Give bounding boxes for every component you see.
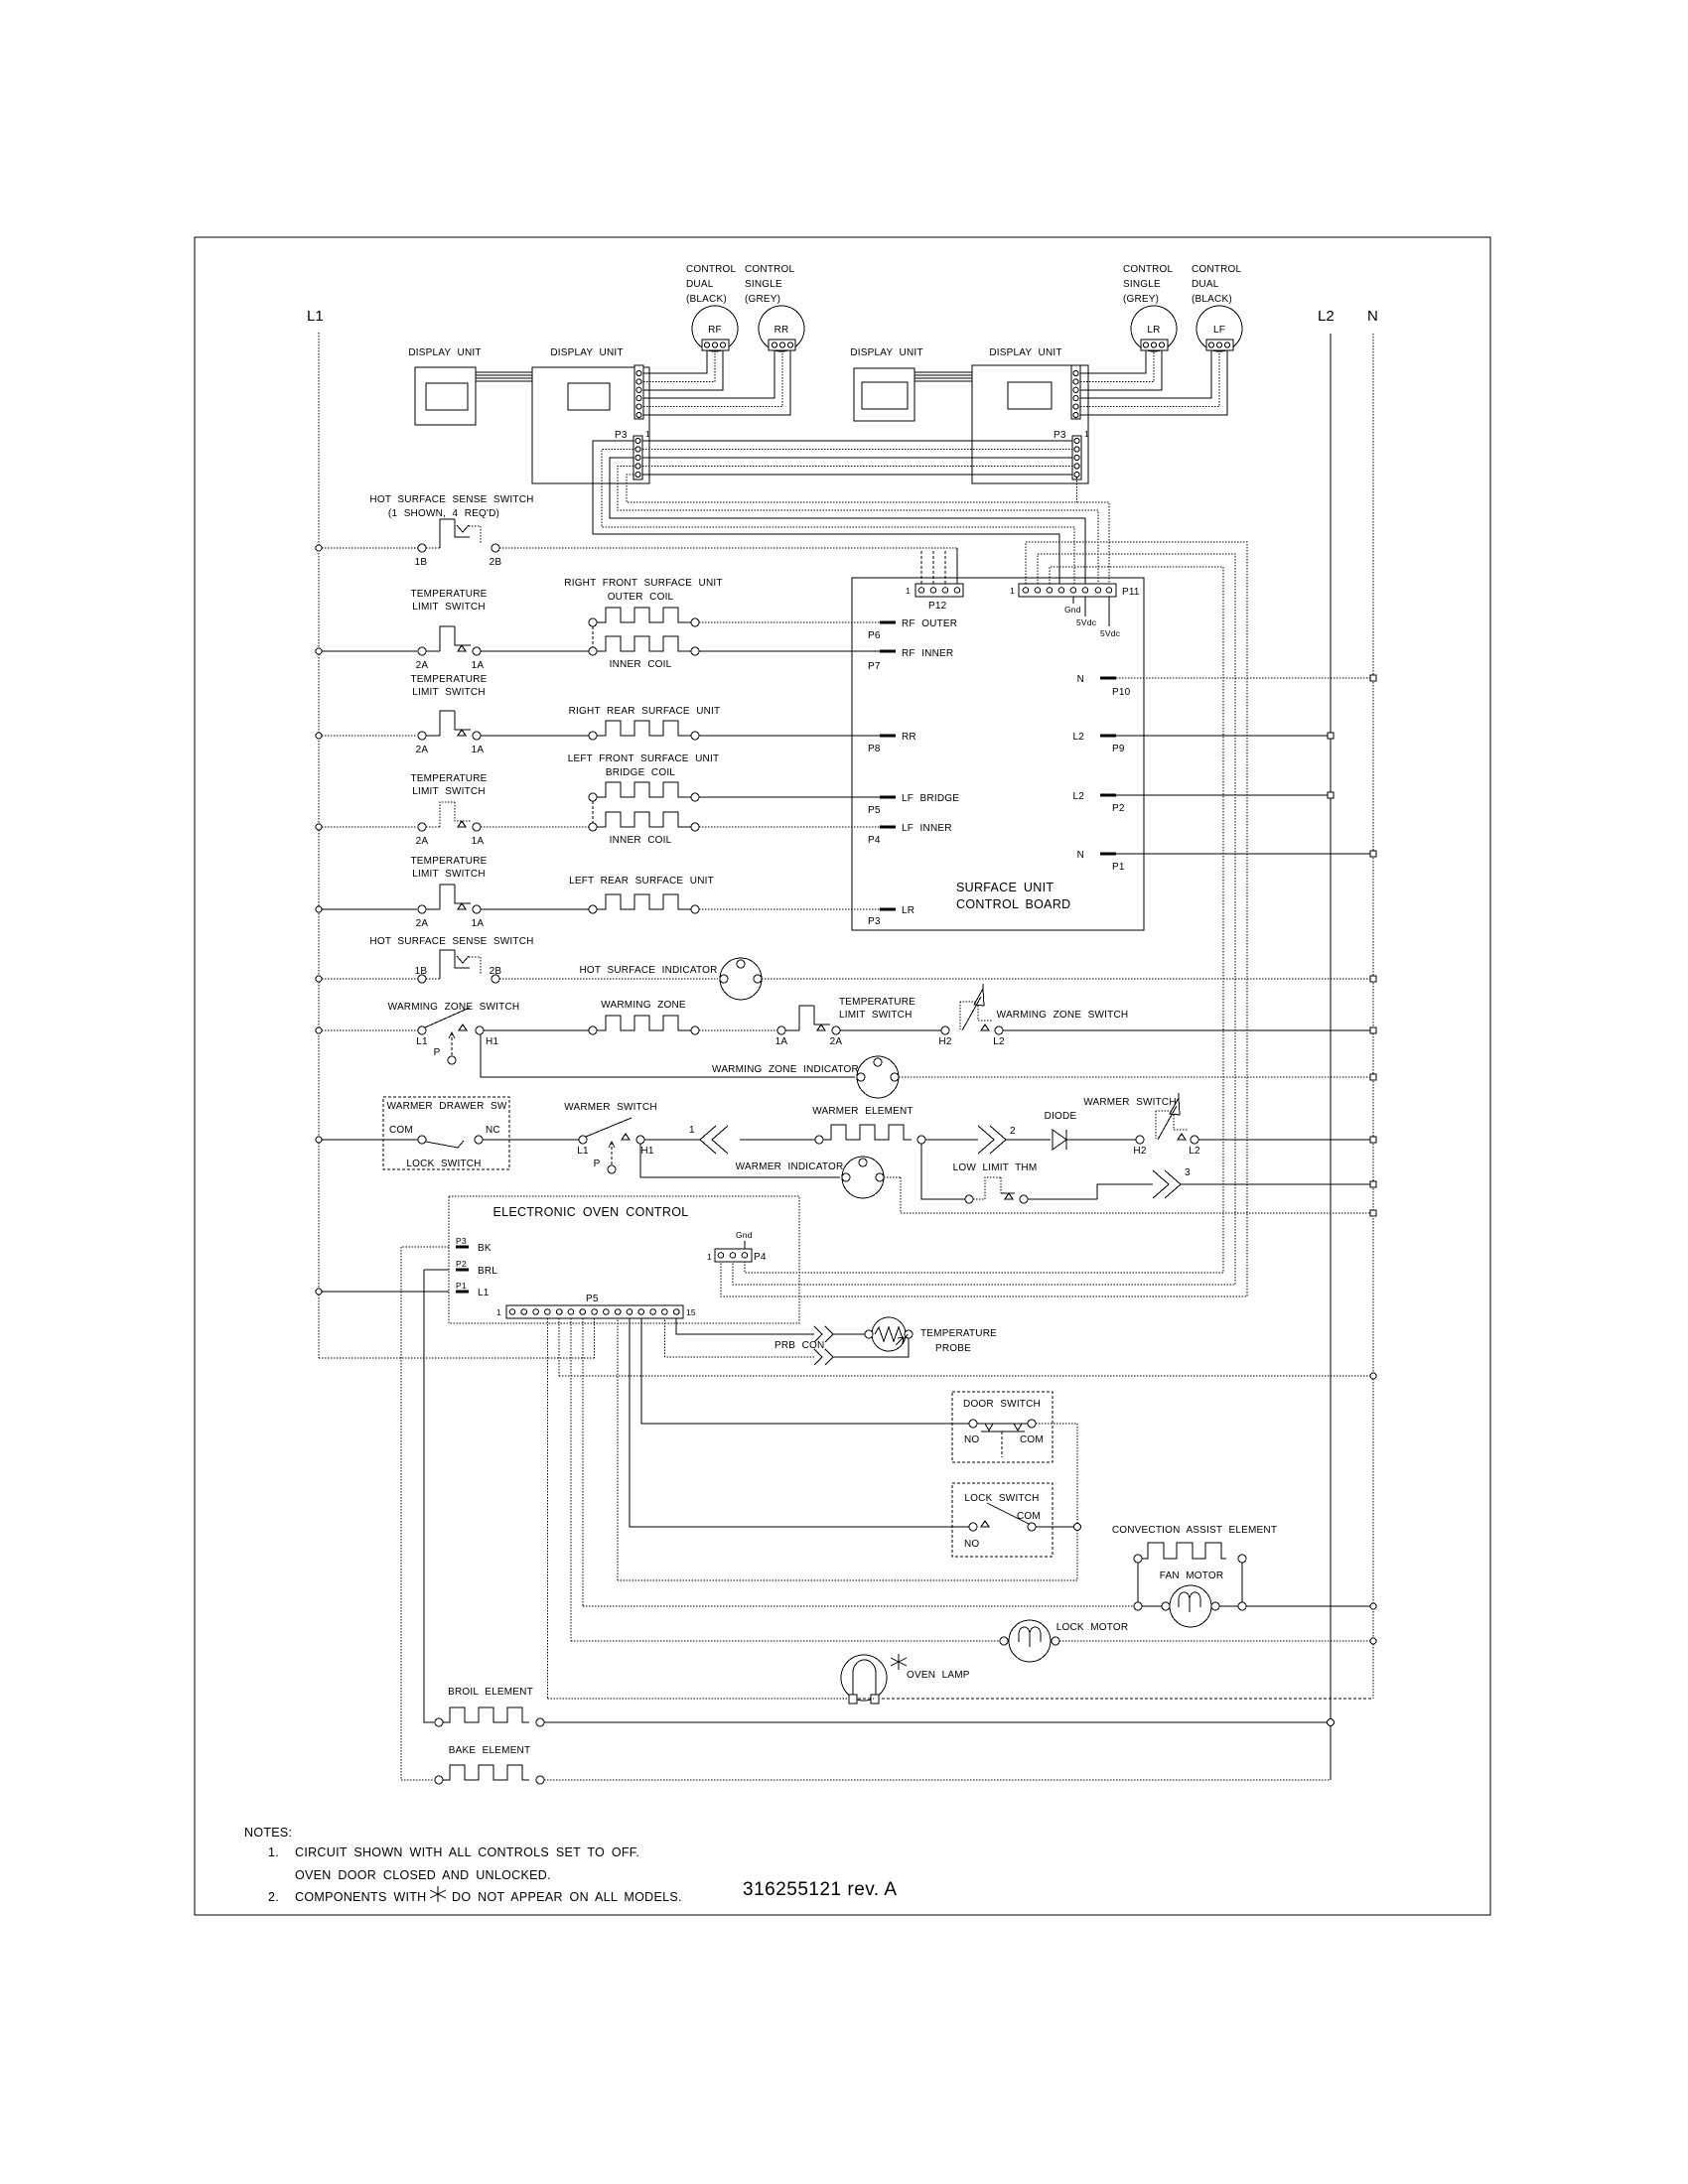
wire broil element to L2 [544,1721,1331,1723]
display unit 4 box [972,365,1088,483]
svg-text:OVEN LAMP: OVEN LAMP [907,1670,970,1681]
svg-text:LIMIT SWITCH: LIMIT SWITCH [412,869,486,880]
svg-text:1: 1 [1010,586,1015,596]
svg-text:2A: 2A [416,918,429,929]
wire probe return to P5 pin14 [664,1318,814,1357]
svg-text:N: N [1077,850,1084,861]
svg-text:2A: 2A [416,836,429,847]
warmer switch right [1136,1136,1144,1144]
svg-text:H2: H2 [938,1036,951,1047]
wire P3a pin2 wrap to P11 pin5 [602,450,1074,585]
svg-text:P9: P9 [1112,744,1125,754]
wire coil LF bridge to P5 [699,796,880,798]
ribbon cable 2 [914,372,972,381]
heating element broil [435,1718,443,1726]
wire P11 pin3 riser to right bundle [745,567,1223,1273]
svg-text:P3: P3 [456,1236,467,1246]
node junction P10-N [1370,675,1376,681]
oven lamp asterisk [891,1654,907,1670]
svg-text:WARMER SWITCH: WARMER SWITCH [564,1102,657,1113]
fan motor [1142,1605,1162,1607]
svg-text:INNER COIL: INNER COIL [610,659,672,670]
svg-text:SINGLE: SINGLE [1123,279,1161,290]
pin P4 [880,826,896,829]
svg-text:INNER COIL: INNER COIL [610,835,672,846]
svg-text:CONTROL: CONTROL [1192,264,1242,275]
svg-text:WARMING ZONE SWITCH: WARMING ZONE SWITCH [997,1010,1129,1021]
wire 1A to coil RF [481,650,589,652]
node junction pin5-N [1370,1373,1376,1379]
wire warmer indicator return to N [884,1177,1373,1213]
wire P5 pin12 to door switch [641,1318,969,1424]
control knob RF [692,306,738,351]
node junction warming-N [1370,1027,1376,1033]
node L1 junction row LR [316,906,322,912]
svg-text:WARMER ELEMENT: WARMER ELEMENT [812,1106,914,1117]
warming zone indicator lamp [857,1056,899,1098]
node L1 junction row warmer [316,1137,322,1143]
svg-text:LIMIT SWITCH: LIMIT SWITCH [412,602,486,613]
svg-text:LEFT FRONT SURFACE UNIT: LEFT FRONT SURFACE UNIT [568,753,720,764]
node L1 junction row LF [316,824,322,830]
wire row RF inner rail [322,650,417,652]
wire P3 EOC left [401,1246,449,1248]
svg-text:Gnd: Gnd [1064,605,1081,614]
svg-text:CIRCUIT SHOWN WITH ALL CONTROL: CIRCUIT SHOWN WITH ALL CONTROLS SET TO O… [295,1845,639,1859]
wire chevron to probe [833,1333,865,1335]
svg-text:TEMPERATURE: TEMPERATURE [410,856,487,867]
svg-text:2A: 2A [416,660,429,671]
svg-text:LEFT REAR SURFACE UNIT: LEFT REAR SURFACE UNIT [569,876,714,887]
heating element RF outer coil [597,608,691,622]
svg-text:TEMPERATURE: TEMPERATURE [410,773,487,784]
ribbon cable 1 [476,372,532,381]
svg-text:COM: COM [1020,1434,1044,1445]
svg-text:P5: P5 [868,805,881,816]
wire display2 pin6 to RR pin3 [643,350,790,415]
svg-text:3: 3 [1185,1167,1191,1178]
svg-text:TEMPERATURE: TEMPERATURE [410,589,487,600]
wire P5 pin5 to N [559,1318,1373,1376]
svg-text:P5: P5 [586,1294,599,1304]
wire P2 to L2 [1116,794,1331,796]
svg-text:LOW LIMIT THM: LOW LIMIT THM [953,1162,1038,1173]
wire display4 pin2 to LR pin2 [1080,350,1154,381]
lock motor [1009,1620,1051,1662]
wire hot surface indicator to N [762,978,1373,980]
display unit 3 box [854,368,914,421]
connector P4 EOC [715,1249,752,1262]
node junction fan-N [1370,1603,1376,1609]
wire convection drops [1138,1563,1242,1602]
svg-text:DOOR SWITCH: DOOR SWITCH [963,1399,1041,1410]
notes asterisk [430,1886,446,1902]
pin P8 [880,735,896,738]
warmer switch left [579,1136,587,1144]
wire quick connect 3 to N [1181,1183,1373,1185]
wire L1 bus [318,333,320,1358]
node junction warmer-N [1370,1137,1376,1143]
svg-text:WARMER INDICATOR: WARMER INDICATOR [736,1161,844,1172]
svg-text:LOCK SWITCH: LOCK SWITCH [964,1493,1039,1504]
wire P3b pin5 drop to bus [1076,478,1078,502]
wire to diode [1006,1139,1051,1141]
page border frame [195,237,1490,1915]
wire P1 EOC to L1 [319,1291,449,1293]
svg-text:P1: P1 [456,1281,467,1291]
svg-text:P11: P11 [1122,587,1140,598]
svg-text:LF BRIDGE: LF BRIDGE [902,793,959,804]
svg-text:CONTROL: CONTROL [1123,264,1174,275]
pin 5Vdc stub P11 [1084,597,1086,616]
wire P5 pin7 to fan row [583,1318,1134,1606]
svg-text:1: 1 [689,1125,695,1136]
svg-text:COM: COM [389,1125,413,1136]
wire bake element to L2 corner [544,1779,1331,1781]
wire display2 pin5 to RR pin2 [643,350,782,407]
svg-text:NC: NC [486,1125,500,1136]
heating element LF bridge coil [597,782,691,797]
svg-text:2A: 2A [416,745,429,755]
wire 1A to coil RR [481,735,589,737]
hot surface sense switch 2 [418,975,426,983]
svg-text:HOT SURFACE SENSE SWITCH: HOT SURFACE SENSE SWITCH [369,936,533,947]
svg-text:L2: L2 [1072,732,1084,743]
wire coil RR to P8 [699,735,880,737]
svg-text:NOTES:: NOTES: [244,1826,292,1840]
pin P9 [1100,735,1116,738]
svg-text:COMPONENTS WITH: COMPONENTS WITH [295,1890,427,1904]
temperature probe [872,1317,906,1351]
node junction door-lock COM [1074,1524,1081,1531]
svg-text:L2: L2 [1072,791,1084,802]
wire P10 to N [1116,677,1373,679]
svg-text:P4: P4 [754,1252,767,1263]
svg-text:P2: P2 [1112,803,1125,814]
wire P2 EOC left [424,1269,449,1271]
wire row RR rail [322,735,417,737]
heating element warmer [815,1136,823,1144]
svg-text:H1: H1 [486,1036,498,1047]
svg-text:2.: 2. [268,1890,279,1904]
svg-text:2: 2 [1010,1126,1016,1137]
control knob LR [1131,306,1177,351]
svg-text:P4: P4 [868,835,881,846]
node junction hotsurfind-N [1370,976,1376,982]
pin P10 [1100,677,1116,680]
warmer indicator lamp [842,1157,884,1198]
wire low limit branch [921,1144,965,1199]
connector P12 [915,584,963,597]
node junction warmind-N [1370,1074,1376,1080]
heating element RF inner coil [597,636,691,651]
wire row LF rail [322,826,417,828]
wire P9 to L2 [1116,735,1331,737]
wire to warmer element [740,1139,815,1141]
svg-text:H1: H1 [640,1146,653,1157]
surface unit control board box [852,578,1144,930]
svg-text:LR: LR [902,905,914,916]
svg-text:TEMPERATURE: TEMPERATURE [920,1328,997,1339]
wire coil LF inner to P4 [699,826,880,828]
svg-text:P3: P3 [868,916,881,927]
wire junction down to P5 pin10 [618,1318,1077,1580]
node L1 junction row hot surface 2 [316,976,322,982]
wire P3a pin4 to P3b pin4 [642,466,1072,468]
wire hot surface 1 to P12 [499,547,957,549]
svg-text:1.: 1. [268,1845,279,1859]
svg-text:LIMIT SWITCH: LIMIT SWITCH [412,687,486,698]
node junction P1-N [1370,851,1376,857]
svg-text:P12: P12 [928,601,947,612]
svg-text:LF INNER: LF INNER [902,823,952,834]
warming zone switch left [418,1026,426,1034]
node junction P2-L2 [1328,792,1334,798]
wire P3a pin5 wrap to P11 pin8 [627,475,1109,584]
node junction lowlimit-N [1370,1181,1376,1187]
wire coil LR to P3 [699,908,880,910]
temperature limit switch warming [777,1026,785,1034]
connector P3 display2 [633,436,642,479]
wire P5 pin11 to lock switch [630,1318,969,1527]
connector P11 [1019,584,1116,597]
wire probe return [833,1338,909,1357]
quick connect probe bottom [814,1349,833,1365]
wire warmer indicator branch [640,1144,840,1177]
wire warmer row to N [1198,1139,1373,1141]
wire P5 pin6 to lock motor [571,1318,1000,1641]
svg-text:RF INNER: RF INNER [902,648,953,659]
svg-text:CONTROL: CONTROL [745,264,795,275]
wire P3a pin1 wrap to P11 pin4 [593,441,1059,584]
wire P11 pin1 riser to right bundle [721,542,1247,1297]
svg-text:2B: 2B [490,557,502,568]
wire P5 pin15 to probe [676,1318,814,1334]
heating element LF inner coil [597,812,691,827]
svg-text:SURFACE UNIT: SURFACE UNIT [956,881,1054,894]
wire 1A to coil LR [481,908,589,910]
svg-text:WARMING ZONE: WARMING ZONE [601,1000,686,1011]
svg-text:BRIDGE COIL: BRIDGE COIL [606,767,675,778]
wire P3a pin3 to P3b pin3 [642,457,1072,459]
svg-text:WARMER SWITCH: WARMER SWITCH [1083,1097,1177,1108]
svg-text:2B: 2B [490,966,502,977]
svg-text:DIODE: DIODE [1045,1111,1077,1122]
wire display4 pin5 to LF pin2 [1080,350,1219,407]
warming zone switch right [941,1026,949,1034]
svg-text:TEMPERATURE: TEMPERATURE [839,997,915,1008]
svg-text:WARMING ZONE INDICATOR: WARMING ZONE INDICATOR [712,1064,859,1075]
svg-text:DISPLAY UNIT: DISPLAY UNIT [989,347,1061,358]
wire row hot surface 1 rail left [322,547,418,549]
node branch LF bridge [589,793,597,801]
wire row warmer rail left [322,1139,418,1141]
svg-text:RR: RR [902,732,916,743]
svg-text:H2: H2 [1133,1146,1146,1157]
wire lock COM to junction [1036,1526,1074,1528]
temperature limit switch LF [418,823,426,831]
wire P3a pin2 to P3b pin2 [642,449,1072,451]
svg-text:P3: P3 [615,430,628,441]
svg-text:LOCK MOTOR: LOCK MOTOR [1056,1622,1129,1633]
svg-text:PRB CON: PRB CON [774,1340,824,1351]
wire H1 to warming coil [484,1029,589,1031]
wire display4 pin4 to LF pin1 [1080,350,1211,398]
pin P7 [880,650,896,653]
display unit 2 edge connector [634,365,643,419]
temperature limit switch RR [418,732,426,740]
display unit 2 box [532,367,649,483]
svg-text:(1 SHOWN, 4 REQ'D): (1 SHOWN, 4 REQ'D) [388,508,499,519]
svg-text:LIMIT SWITCH: LIMIT SWITCH [412,786,486,797]
temperature limit switch LR [418,905,426,913]
svg-text:CONTROL BOARD: CONTROL BOARD [956,897,1070,911]
svg-text:P: P [434,1047,441,1058]
node junction warmind2-N [1370,1210,1376,1216]
svg-text:PROBE: PROBE [935,1343,971,1354]
wire H1 to quick connect 1 [644,1139,700,1141]
heating element warming zone [589,1026,597,1034]
svg-text:N: N [1077,674,1084,685]
wire P3a pin5 to P3b pin5 [642,474,1072,476]
pin P5 [880,796,896,799]
node L1 junction row RR [316,733,322,739]
svg-text:BRL: BRL [478,1266,497,1277]
svg-text:1A: 1A [472,660,485,671]
lock switch box [952,1483,1053,1557]
svg-text:316255121 rev. A: 316255121 rev. A [743,1879,898,1900]
svg-text:NO: NO [964,1539,979,1550]
svg-text:L1: L1 [478,1288,490,1298]
svg-text:(BLACK): (BLACK) [1192,294,1232,305]
wire coil RF inner to P7 [699,650,880,652]
svg-text:WARMER DRAWER SW: WARMER DRAWER SW [386,1101,506,1112]
wire row LR rail [322,908,417,910]
svg-text:1B: 1B [415,966,428,977]
svg-text:ELECTRONIC OVEN CONTROL: ELECTRONIC OVEN CONTROL [493,1205,689,1219]
svg-text:HOT SURFACE SENSE SWITCH: HOT SURFACE SENSE SWITCH [369,494,533,505]
control knob LF [1196,306,1242,351]
svg-text:N: N [1367,308,1378,325]
node L1 junction P1 [316,1289,322,1295]
lock switch contacts [969,1523,977,1531]
connector P5 EOC [506,1305,683,1318]
wire coil RF outer to P6 [699,621,880,623]
quick connect probe top [814,1326,833,1342]
svg-text:BK: BK [478,1243,492,1254]
oven lamp [841,1655,887,1701]
svg-text:WARMING ZONE SWITCH: WARMING ZONE SWITCH [388,1002,520,1013]
wire door COM down [1036,1424,1077,1523]
svg-text:(BLACK): (BLACK) [686,294,727,305]
svg-text:CONTROL: CONTROL [686,264,737,275]
svg-text:L1: L1 [307,308,324,325]
svg-text:DISPLAY UNIT: DISPLAY UNIT [850,347,922,358]
wire low limit to quick connect 3 [1028,1184,1153,1199]
svg-text:BAKE ELEMENT: BAKE ELEMENT [449,1745,531,1756]
wire display4 pin6 to LF pin3 [1080,350,1227,415]
display unit 1 box [415,367,476,425]
hot surface sense switch 1 [418,544,426,552]
pin P3 board [880,908,896,911]
pin P2 board [1100,794,1116,797]
svg-text:LOCK SWITCH: LOCK SWITCH [406,1159,481,1169]
node L1 junction row warming [316,1027,322,1033]
node conv left on fan row [1134,1602,1142,1610]
svg-text:NO: NO [964,1434,979,1445]
svg-text:1A: 1A [472,918,485,929]
heating element convection assist [1134,1555,1142,1563]
svg-text:L2: L2 [1318,308,1335,325]
node L1 junction row RF [316,648,322,654]
electronic oven control box [449,1196,799,1323]
svg-text:1A: 1A [472,836,485,847]
node conv right on fan row [1238,1602,1246,1610]
svg-text:1B: 1B [415,557,428,568]
wire L2 bus [1330,334,1332,1780]
connector P3 display4 [1072,436,1081,479]
wire 1A to coil LF [481,826,589,828]
wire warming indicator to N [899,1076,1373,1078]
svg-text:HOT SURFACE INDICATOR: HOT SURFACE INDICATOR [580,965,718,976]
svg-text:LIMIT SWITCH: LIMIT SWITCH [839,1010,913,1021]
warmer drawer switch box [383,1097,509,1169]
wire P3a pin1 to P3b pin1 [642,440,1072,442]
pin P1 board [1100,853,1116,856]
svg-text:1: 1 [1084,429,1089,439]
node junction broil-L2 [1328,1719,1335,1726]
svg-text:DISPLAY UNIT: DISPLAY UNIT [408,347,481,358]
svg-text:P6: P6 [868,630,881,641]
wire P3a pin4 wrap to P11 pin7 [618,467,1098,585]
node branch RF outer [589,618,597,626]
wire warming coil to 1A [699,1029,777,1031]
svg-text:5Vdc: 5Vdc [1076,617,1097,627]
wire lock motor to N [1059,1640,1373,1642]
svg-text:L1: L1 [577,1146,589,1157]
temperature limit switch RF [418,647,426,655]
svg-text:RR: RR [774,325,789,336]
wire 2A to H2 warming [840,1029,941,1031]
svg-text:RF OUTER: RF OUTER [902,618,957,629]
svg-text:2A: 2A [830,1036,843,1047]
wire row warming rail left [322,1029,418,1031]
wire P5 pin8 to L1 corner [319,1318,595,1358]
wire P1 to N [1116,853,1373,855]
wire P3a pin3 wrap to P11 pin6 [610,458,1085,584]
P12 sense leads [920,549,922,584]
pin Gnd stub P11 [1072,597,1074,604]
svg-text:P10: P10 [1112,687,1131,698]
svg-text:L2: L2 [993,1036,1005,1047]
svg-text:(GREY): (GREY) [745,294,780,305]
hot surface indicator lamp [720,958,762,1000]
svg-text:FAN MOTOR: FAN MOTOR [1160,1570,1224,1581]
svg-text:DUAL: DUAL [686,279,714,290]
svg-text:TEMPERATURE: TEMPERATURE [410,674,487,685]
wire warmer element to quick connect 2 [925,1139,978,1141]
svg-text:1: 1 [496,1307,501,1317]
svg-text:(GREY): (GREY) [1123,294,1159,305]
wire N bus [1372,334,1374,1699]
node junction lockmotor-N [1370,1638,1376,1644]
warmer drawer switch contacts [418,1136,426,1144]
svg-text:BROIL ELEMENT: BROIL ELEMENT [448,1687,533,1698]
wire display2 pin1 to RF pin1 [643,350,707,373]
node L1 junction row hot surface 1 [316,545,322,551]
wire oven lamp row to N corner [858,1698,1373,1700]
svg-text:P: P [594,1159,601,1169]
